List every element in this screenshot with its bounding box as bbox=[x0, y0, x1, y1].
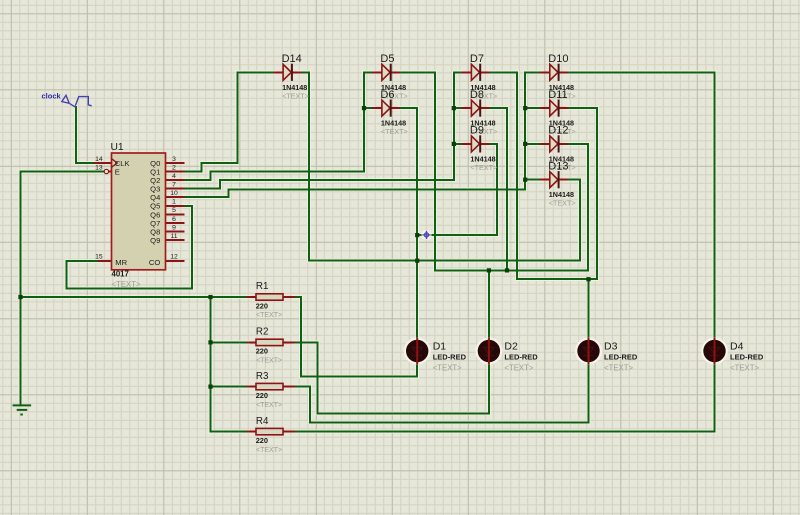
svg-text:9: 9 bbox=[172, 224, 176, 231]
svg-text:<TEXT>: <TEXT> bbox=[730, 364, 759, 373]
svg-text:<TEXT>: <TEXT> bbox=[549, 199, 576, 208]
svg-text:12: 12 bbox=[170, 254, 178, 261]
svg-text:15: 15 bbox=[95, 254, 103, 261]
svg-text:220: 220 bbox=[256, 391, 268, 400]
svg-text:E: E bbox=[115, 168, 120, 177]
svg-text:D9: D9 bbox=[470, 125, 484, 137]
svg-text:7: 7 bbox=[172, 181, 176, 188]
svg-text:<TEXT>: <TEXT> bbox=[282, 91, 309, 100]
svg-text:4: 4 bbox=[172, 173, 176, 180]
svg-text:MR: MR bbox=[115, 258, 127, 267]
svg-text:U1: U1 bbox=[111, 142, 124, 153]
svg-text:14: 14 bbox=[95, 156, 103, 163]
svg-text:1: 1 bbox=[172, 199, 176, 206]
svg-text:11: 11 bbox=[170, 233, 177, 240]
svg-text:R2: R2 bbox=[256, 327, 269, 338]
svg-text:<TEXT>: <TEXT> bbox=[256, 402, 282, 409]
svg-text:5: 5 bbox=[172, 207, 176, 214]
svg-text:3: 3 bbox=[172, 156, 176, 163]
svg-text:D6: D6 bbox=[380, 89, 394, 101]
svg-text:220: 220 bbox=[256, 436, 268, 445]
svg-text:220: 220 bbox=[256, 301, 268, 310]
svg-text:<TEXT>: <TEXT> bbox=[256, 358, 282, 365]
svg-text:Q9: Q9 bbox=[150, 236, 160, 245]
svg-text:LED-RED: LED-RED bbox=[730, 353, 764, 362]
svg-text:R1: R1 bbox=[256, 281, 269, 292]
svg-text:LED-RED: LED-RED bbox=[504, 353, 538, 362]
svg-text:D12: D12 bbox=[548, 125, 568, 137]
svg-text:CO: CO bbox=[149, 258, 160, 267]
svg-text:Q3: Q3 bbox=[150, 184, 160, 193]
svg-text:D5: D5 bbox=[380, 53, 394, 65]
svg-text:6: 6 bbox=[172, 216, 176, 223]
svg-text:D8: D8 bbox=[470, 89, 484, 101]
svg-text:<TEXT>: <TEXT> bbox=[256, 312, 282, 319]
svg-text:LED-RED: LED-RED bbox=[604, 353, 638, 362]
svg-text:10: 10 bbox=[170, 190, 178, 197]
svg-text:D14: D14 bbox=[282, 53, 302, 65]
svg-text:<TEXT>: <TEXT> bbox=[381, 127, 408, 136]
svg-text:D3: D3 bbox=[604, 341, 618, 353]
svg-text:D7: D7 bbox=[470, 53, 484, 65]
svg-text:D13: D13 bbox=[548, 161, 568, 173]
svg-text:<TEXT>: <TEXT> bbox=[256, 447, 282, 454]
svg-text:13: 13 bbox=[95, 165, 103, 172]
svg-text:<TEXT>: <TEXT> bbox=[604, 364, 633, 373]
svg-text:R3: R3 bbox=[256, 371, 269, 382]
svg-text:D4: D4 bbox=[730, 341, 744, 353]
svg-text:D2: D2 bbox=[504, 341, 518, 353]
svg-text:CLK: CLK bbox=[115, 159, 130, 168]
svg-text:<TEXT>: <TEXT> bbox=[504, 364, 533, 373]
svg-text:<TEXT>: <TEXT> bbox=[470, 163, 497, 172]
svg-text:<TEXT>: <TEXT> bbox=[112, 280, 141, 289]
svg-text:D11: D11 bbox=[548, 89, 567, 101]
svg-text:LED-RED: LED-RED bbox=[433, 353, 467, 362]
svg-text:clock: clock bbox=[42, 92, 62, 101]
svg-text:R4: R4 bbox=[256, 416, 269, 427]
svg-text:D1: D1 bbox=[433, 341, 447, 353]
svg-text:<TEXT>: <TEXT> bbox=[433, 364, 462, 373]
svg-text:4017: 4017 bbox=[112, 270, 129, 279]
svg-text:D10: D10 bbox=[548, 53, 568, 65]
svg-text:2: 2 bbox=[172, 164, 176, 171]
svg-text:220: 220 bbox=[256, 347, 268, 356]
